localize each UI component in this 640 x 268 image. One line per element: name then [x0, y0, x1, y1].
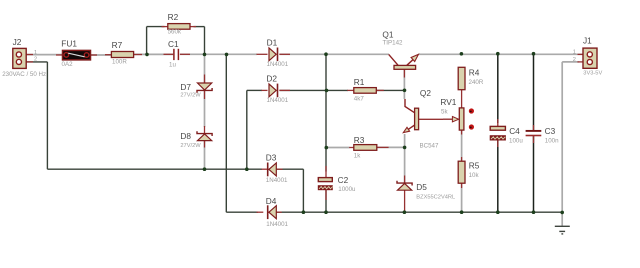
- svg-text:J2: J2: [13, 37, 22, 47]
- svg-text:BZX55C2V4RL: BZX55C2V4RL: [416, 194, 455, 200]
- svg-text:C3: C3: [545, 126, 556, 136]
- svg-text:D4: D4: [266, 196, 277, 206]
- svg-text:1000u: 1000u: [338, 186, 356, 193]
- svg-text:RV1: RV1: [440, 97, 456, 107]
- svg-text:1k: 1k: [354, 152, 361, 159]
- svg-text:27V/2W: 27V/2W: [180, 143, 201, 149]
- svg-text:1N4001: 1N4001: [267, 61, 289, 68]
- svg-text:D7: D7: [180, 82, 191, 92]
- svg-text:100n: 100n: [545, 138, 559, 145]
- svg-text:2: 2: [573, 57, 576, 63]
- svg-text:R7: R7: [112, 40, 123, 50]
- svg-text:Q2: Q2: [420, 88, 431, 98]
- svg-text:C1: C1: [168, 39, 179, 49]
- svg-text:1N4001: 1N4001: [266, 177, 288, 184]
- svg-text:R1: R1: [354, 77, 365, 87]
- svg-text:560k: 560k: [168, 29, 182, 36]
- svg-text:C4: C4: [509, 126, 520, 136]
- svg-text:TIP142: TIP142: [383, 40, 404, 47]
- svg-text:0A2: 0A2: [62, 61, 74, 68]
- svg-text:1u: 1u: [169, 62, 176, 69]
- svg-text:C2: C2: [338, 175, 349, 185]
- svg-text:5k: 5k: [441, 108, 448, 115]
- svg-text:R4: R4: [469, 67, 480, 77]
- svg-text:1N4001: 1N4001: [267, 97, 289, 104]
- svg-text:100R: 100R: [112, 59, 127, 66]
- svg-text:Q1: Q1: [382, 30, 393, 40]
- svg-text:R5: R5: [469, 161, 480, 171]
- svg-text:1N4001: 1N4001: [266, 221, 288, 228]
- svg-text:J1: J1: [583, 36, 592, 46]
- svg-text:1: 1: [573, 50, 576, 56]
- svg-text:2: 2: [34, 56, 37, 62]
- svg-text:R2: R2: [168, 12, 179, 22]
- svg-text:FU1: FU1: [61, 38, 77, 48]
- svg-text:4k7: 4k7: [354, 96, 365, 103]
- svg-text:230VAC / 50 Hz: 230VAC / 50 Hz: [2, 71, 46, 78]
- svg-text:BC547: BC547: [420, 142, 439, 149]
- svg-text:240R: 240R: [469, 79, 484, 86]
- svg-text:3V3-5V: 3V3-5V: [583, 71, 602, 77]
- svg-text:27V/2W: 27V/2W: [180, 93, 201, 99]
- svg-text:R3: R3: [354, 135, 365, 145]
- svg-text:D5: D5: [416, 182, 427, 192]
- svg-text:1: 1: [34, 50, 37, 56]
- svg-text:D2: D2: [266, 74, 277, 84]
- svg-text:10k: 10k: [469, 172, 480, 179]
- svg-text:D3: D3: [266, 152, 277, 162]
- svg-text:D8: D8: [180, 131, 191, 141]
- svg-text:D1: D1: [267, 37, 278, 47]
- svg-text:100u: 100u: [509, 138, 523, 145]
